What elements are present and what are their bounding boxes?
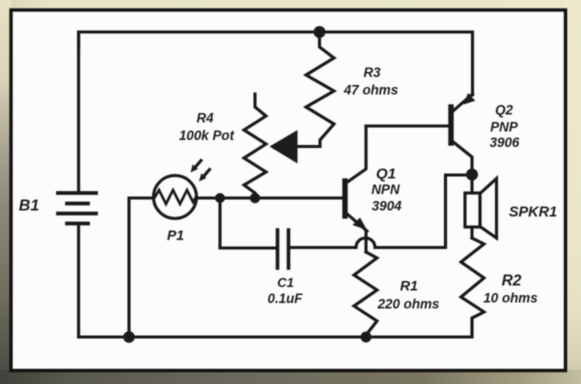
svg-text:R2: R2 xyxy=(502,273,522,290)
node base-wire/C1 junction xyxy=(215,193,225,203)
transistor Q2 base bar xyxy=(448,107,453,143)
node bottom-rail/P1 junction xyxy=(123,331,135,343)
wire Q1 collector to Q2 base xyxy=(346,126,366,183)
speaker SPKR1 xyxy=(465,179,497,239)
wire P1 branch xyxy=(129,198,153,337)
node Q2 collector/speaker junction xyxy=(466,169,478,181)
transistor Q1 emitter xyxy=(346,213,367,231)
svg-text:3906: 3906 xyxy=(490,135,520,150)
node top-rail/R3 junction xyxy=(314,26,326,38)
wire bottom rail xyxy=(79,319,472,337)
svg-text:100k Pot: 100k Pot xyxy=(179,128,235,143)
svg-text:C1: C1 xyxy=(277,275,294,290)
svg-text:NPN: NPN xyxy=(371,182,400,197)
svg-text:47 ohms: 47 ohms xyxy=(343,83,398,98)
wiper arrow of R4 xyxy=(270,130,321,164)
wire right rail xyxy=(471,32,474,95)
resistor R2 xyxy=(461,238,484,337)
node bottom-rail/R1 junction xyxy=(361,332,372,343)
svg-text:R4: R4 xyxy=(196,111,214,126)
light arrow 1 into P1 xyxy=(191,161,202,173)
wire C1 to speaker node with hop over emitter xyxy=(290,175,468,248)
wire junction to speaker xyxy=(470,174,473,193)
wire C1 branch from base junction xyxy=(220,198,276,248)
svg-text:R1: R1 xyxy=(400,278,418,294)
node base-wire/R4 junction xyxy=(250,193,260,203)
wire Q1 emitter to R1 xyxy=(364,232,367,252)
transistor Q2 collector xyxy=(452,141,472,172)
svg-text:P1: P1 xyxy=(167,227,184,243)
resistor R1 xyxy=(354,252,377,337)
svg-text:0.1uF: 0.1uF xyxy=(268,291,304,306)
svg-text:3904: 3904 xyxy=(372,199,402,214)
wire top rail xyxy=(79,32,473,48)
svg-text:PNP: PNP xyxy=(490,120,518,135)
svg-text:Q1: Q1 xyxy=(376,166,396,183)
svg-text:B1: B1 xyxy=(19,198,40,215)
capacitor C1 xyxy=(278,230,289,268)
potentiometer R4 xyxy=(244,94,266,198)
transistor Q2 emitter xyxy=(453,93,476,112)
resistor R3 xyxy=(306,32,334,146)
light arrow 2 into P1 xyxy=(199,170,210,182)
battery B1 xyxy=(58,193,96,224)
wire speaker to R2 xyxy=(470,227,473,238)
transistor Q1 base bar xyxy=(342,181,347,216)
photoresistor P1 xyxy=(154,176,197,219)
svg-text:10 ohms: 10 ohms xyxy=(483,291,537,306)
svg-text:R3: R3 xyxy=(363,65,381,80)
svg-text:Q2: Q2 xyxy=(495,103,513,118)
wire left rail battery bottom xyxy=(77,224,80,337)
wire left rail battery top xyxy=(77,32,80,192)
wire Q2 base xyxy=(366,124,449,127)
svg-text:220 ohms: 220 ohms xyxy=(377,297,440,312)
svg-text:SPKR1: SPKR1 xyxy=(509,205,557,221)
wire P1 to Q1 base xyxy=(197,196,344,199)
